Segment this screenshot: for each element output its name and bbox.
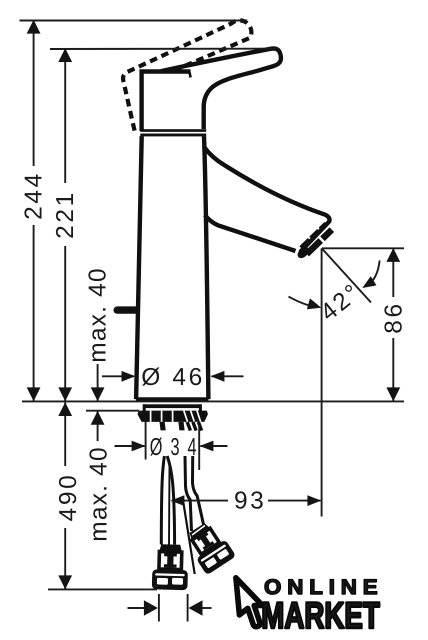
dashed raised lever outline: [123, 20, 251, 130]
mounting tabs under escutcheon: [160, 422, 166, 431]
hose right outline b: [193, 456, 204, 525]
housing top-right tick: [189, 72, 190, 78]
curved arrow arc: [367, 261, 380, 286]
escutcheon body: [138, 411, 208, 422]
svg-text:Ø 3 4: Ø 3 4: [150, 434, 199, 461]
hose long thin diagonal: [183, 502, 195, 575]
hose left inner line: [167, 456, 174, 545]
dia34 left line: [115, 445, 145, 447]
spout tip vertical line: [321, 248, 323, 516]
bottom reference line: [48, 588, 157, 590]
faucet handle lever (solid): [161, 49, 281, 129]
arrow up max40 lower: [91, 411, 105, 425]
svg-text:Ø 46: Ø 46: [141, 364, 205, 391]
244 vertical line upper: [33, 21, 35, 167]
arrow up 244 top: [27, 20, 41, 34]
cone body bottom edge: [136, 397, 208, 401]
svg-text:86: 86: [381, 301, 408, 333]
handle housing top and left edge: [142, 72, 191, 132]
svg-text:93: 93: [234, 488, 266, 515]
bottom width dim right tail: [202, 607, 212, 609]
svg-text:244: 244: [21, 171, 48, 220]
svg-text:490: 490: [55, 473, 82, 522]
hose left outer line: [161, 456, 164, 545]
cone body right edge: [204, 136, 208, 399]
arrow left bottom width right: [189, 600, 203, 615]
spout tip horizontal line: [322, 247, 404, 249]
aerator stripe 1: [301, 224, 326, 248]
spout bottom edge: [205, 215, 296, 251]
221 vertical line lower: [64, 246, 66, 401]
counter underside line: [86, 410, 139, 412]
bottom width dim left tail: [128, 607, 146, 609]
bottom width left extension: [158, 594, 160, 622]
42deg diagonal line: [322, 249, 371, 303]
svg-text:221: 221: [52, 190, 79, 239]
extension line top 221: [50, 48, 277, 50]
right hose connector: [182, 518, 236, 575]
arrowhead curved arrow: [362, 276, 376, 288]
arrow up 86 top: [386, 248, 400, 262]
arrow down 244 bottom: [27, 387, 41, 401]
logo cursor: [236, 578, 263, 627]
aerator end blob: [295, 245, 310, 260]
dimension texts: [21, 171, 408, 542]
arrow right dia46 left: [122, 371, 136, 382]
escutcheon top plate: [143, 404, 201, 408]
dia34 right line: [201, 445, 228, 447]
arrow right bottom width left: [144, 600, 158, 615]
221 vertical line upper: [64, 49, 66, 183]
arrow right dia34 left: [132, 441, 146, 452]
arrow down 221 bottom: [58, 387, 72, 401]
bottom width right extension: [187, 594, 189, 622]
countertop line: [22, 400, 404, 402]
42deg leader curve: [289, 297, 312, 306]
490 vertical line upper: [64, 402, 66, 466]
dia34 right extension: [198, 425, 200, 470]
joint ring between housing and body: [140, 129, 206, 136]
extension line top 244: [20, 20, 248, 22]
arrow down max40 upper: [91, 387, 105, 401]
arrow down 490 bottom: [58, 575, 72, 589]
arrow up 221 top: [58, 48, 72, 62]
93 line left part: [172, 500, 229, 502]
490 vertical line lower: [64, 528, 66, 589]
cone body left edge: [136, 136, 142, 399]
dia46 left line: [102, 375, 134, 377]
hose middle thin line: [168, 464, 171, 545]
max40 lower vertical line: [97, 411, 99, 441]
arrowhead 42 leader: [307, 298, 321, 309]
max40 upper vertical line: [97, 364, 99, 401]
spout top edge: [204, 147, 330, 253]
svg-text:max. 40: max. 40: [85, 267, 112, 363]
arrow left dia34 right: [200, 441, 214, 452]
86 vertical line lower: [392, 338, 394, 401]
pop-up rod knob: [114, 306, 140, 313]
arrow down 86 bottom: [386, 387, 400, 401]
left hose connector: [152, 544, 189, 590]
arrow up 490 top: [58, 402, 72, 416]
aerator stripe 2: [307, 230, 332, 254]
244 vertical line lower: [33, 225, 35, 401]
hose right outline a: [185, 456, 192, 531]
93 line right part: [268, 500, 321, 502]
arrow right 93 right end: [307, 495, 321, 506]
arrow left dia46 right: [211, 371, 225, 382]
svg-text:max. 40: max. 40: [85, 446, 112, 542]
svg-text:MARKET: MARKET: [261, 595, 380, 636]
dia34 left extension: [145, 421, 147, 460]
arrow left 93 left end: [171, 495, 185, 506]
86 vertical line upper: [392, 248, 394, 297]
dia46 right line: [212, 375, 244, 377]
